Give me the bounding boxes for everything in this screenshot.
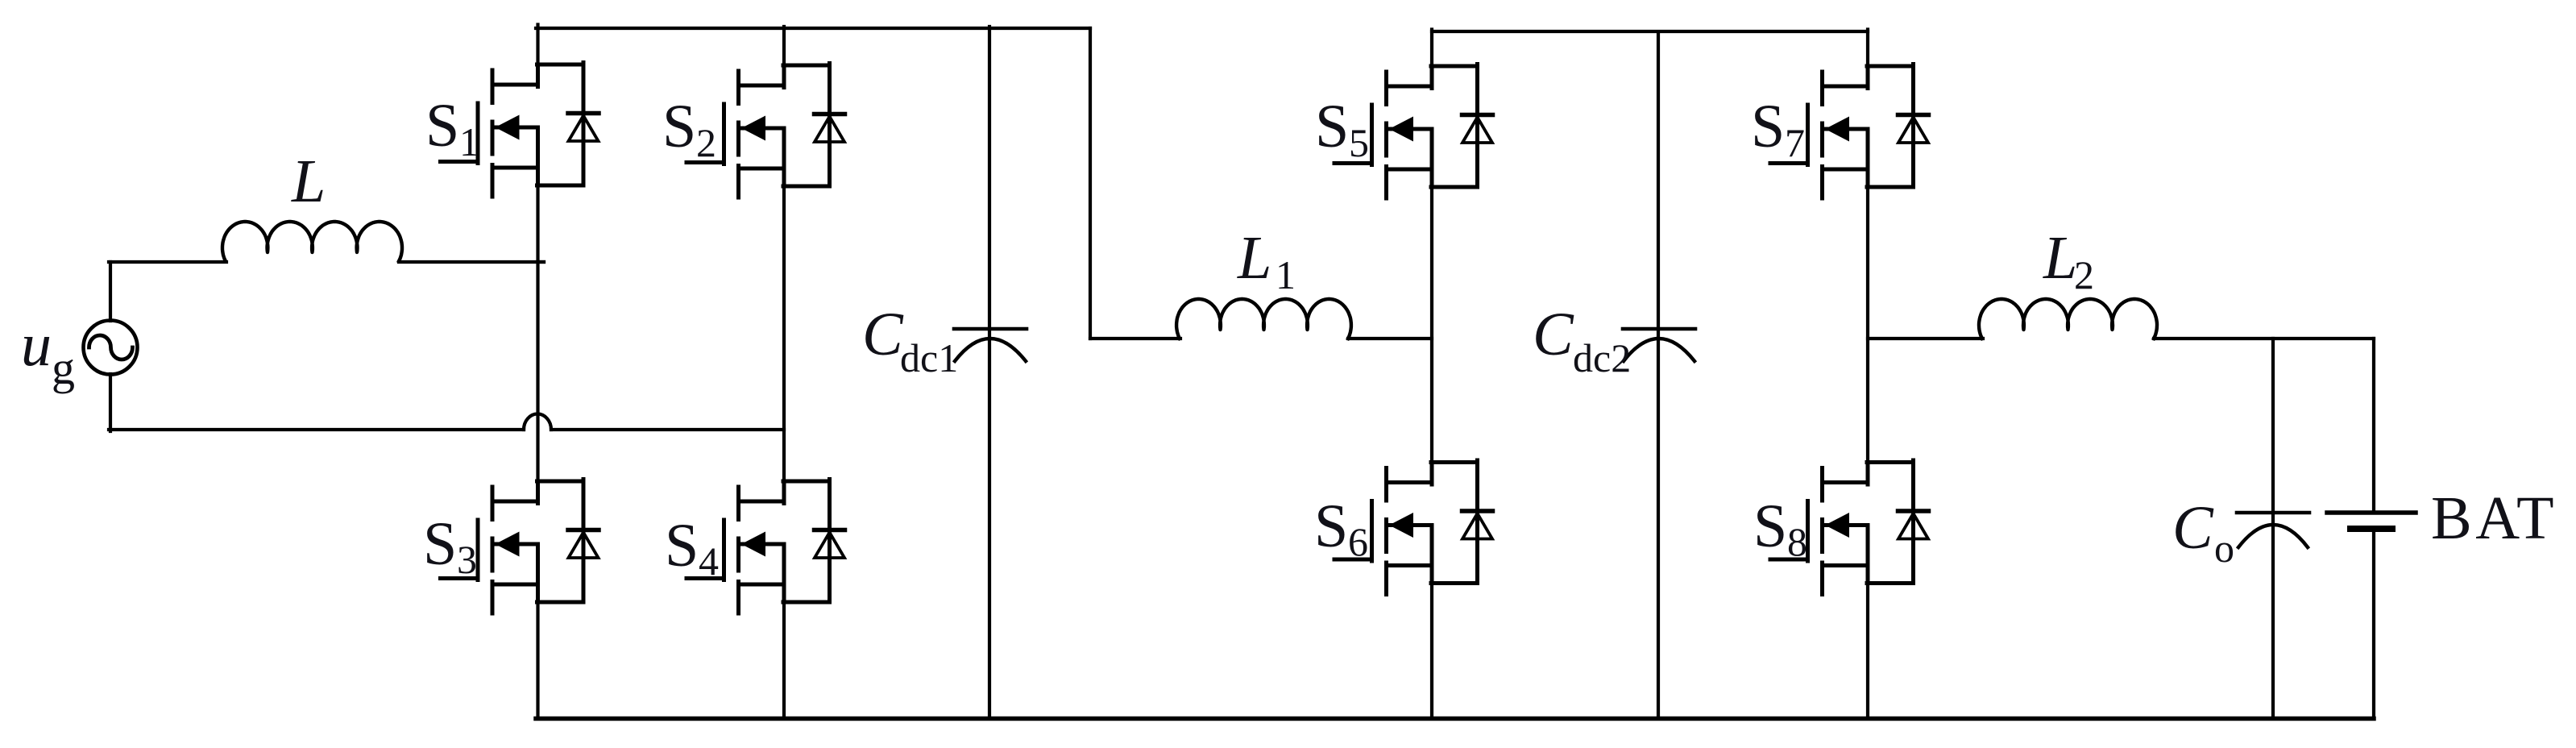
transistor S6 — [1334, 460, 1493, 595]
svg-text:2: 2 — [696, 120, 716, 165]
wire: common negative rail — [536, 717, 2374, 721]
wire: L1 to leg C midpoint — [1348, 337, 1432, 340]
wire: source bottom lead — [109, 374, 112, 431]
capacitor Cdc1 — [988, 27, 991, 718]
wire: dc link positive rail 1 — [536, 27, 1090, 30]
battery BAT — [2372, 339, 2375, 510]
capacitor Cdc2 — [1657, 33, 1660, 718]
wire: rail 1 drop — [1089, 28, 1092, 339]
svg-text:7: 7 — [1785, 120, 1805, 165]
transistor S7 — [1770, 64, 1929, 199]
capacitor Co — [2271, 339, 2275, 718]
wire: leg C column — [1430, 30, 1433, 719]
svg-text:S: S — [1753, 492, 1787, 560]
svg-text:C: C — [862, 301, 904, 368]
svg-text:1: 1 — [459, 119, 479, 164]
wire: source top lead — [109, 262, 112, 321]
wire: leg D column — [1866, 30, 1869, 719]
svg-text:S: S — [1314, 492, 1348, 560]
wire: neutral to bridge leg B — [551, 428, 784, 431]
svg-text:C: C — [1533, 301, 1574, 368]
svg-text:S: S — [1751, 93, 1785, 160]
svg-text:L: L — [1237, 224, 1271, 292]
wire: drop to inductor L1 — [1090, 337, 1180, 340]
wire: leg B column — [782, 27, 786, 718]
AC source u_g — [84, 321, 138, 375]
wire: leg D midpoint to inductor L2 — [1868, 337, 1983, 340]
svg-text:S: S — [662, 93, 696, 160]
node A: tick at leg A input junction — [538, 260, 545, 264]
svg-text:S: S — [665, 512, 699, 580]
wire: phase to inductor L — [109, 260, 226, 264]
svg-text:5: 5 — [1349, 120, 1369, 165]
wire: L2 to battery node — [2154, 337, 2374, 340]
svg-text:1: 1 — [1276, 252, 1296, 297]
svg-text:dc2: dc2 — [1573, 335, 1631, 380]
wire crossover hop — [524, 414, 551, 430]
wire: leg A drain/source column — [536, 25, 539, 719]
svg-text:L: L — [291, 148, 326, 215]
transistor S4 — [687, 480, 845, 614]
svg-text:6: 6 — [1348, 519, 1368, 564]
svg-text:o: o — [2214, 526, 2234, 571]
svg-text:BAT: BAT — [2431, 484, 2557, 552]
inductor L1 — [1176, 299, 1351, 339]
svg-text:g: g — [52, 342, 75, 394]
wire: dc link positive rail 2 — [1432, 30, 1868, 33]
svg-text:2: 2 — [2074, 252, 2094, 297]
wire: neutral run to crossover — [109, 428, 524, 431]
svg-text:u: u — [21, 311, 52, 379]
svg-text:L: L — [2043, 224, 2077, 292]
svg-text:S: S — [425, 92, 459, 160]
transistor S1 (MOSFET with body diode) — [441, 63, 599, 197]
svg-text:S: S — [423, 510, 457, 578]
svg-text:8: 8 — [1787, 519, 1807, 564]
svg-text:dc1: dc1 — [900, 335, 958, 380]
transistor S3 — [441, 480, 599, 614]
svg-text:4: 4 — [699, 538, 719, 584]
inductor L — [222, 222, 402, 261]
transistor S2 — [687, 64, 845, 198]
svg-text:S: S — [1315, 93, 1349, 160]
svg-text:C: C — [2172, 494, 2214, 562]
inductor L2 — [1979, 299, 2157, 339]
wire: inductor to bridge leg A — [399, 260, 544, 264]
transistor S8 — [1770, 460, 1929, 595]
transistor S5 — [1334, 64, 1493, 199]
svg-text:3: 3 — [457, 537, 477, 582]
